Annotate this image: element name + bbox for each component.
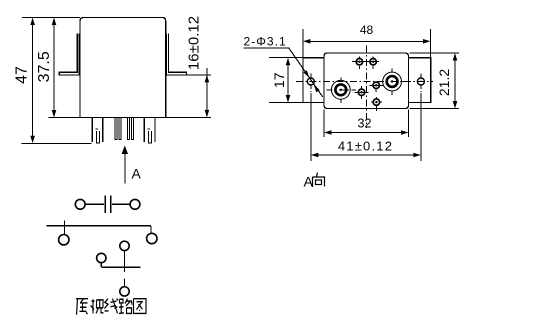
svg-text:A: A — [132, 166, 142, 182]
pin, left inner blade — [97, 131, 100, 143]
dimension 17 extension bottom — [269, 102, 303, 104]
char shi — [91, 299, 104, 313]
bottom view right tab — [409, 58, 431, 103]
dimension 48 extension right — [430, 29, 432, 58]
view arrow A stem — [124, 150, 126, 184]
arrow 17 top — [286, 58, 291, 65]
pin, left wide terminal — [92, 118, 103, 142]
big pin circle right inner — [387, 76, 398, 87]
circuit: lower arm segment — [124, 279, 126, 287]
extension line bottom (47) — [21, 142, 91, 144]
circuit: contact crossbar — [101, 266, 140, 268]
small pin center — [373, 82, 379, 88]
dimension 16 extension bottom — [166, 116, 211, 118]
big pin circle right outer — [383, 72, 402, 91]
dimension 37.5 line — [53, 24, 55, 112]
svg-text:47: 47 — [13, 66, 30, 84]
pin, middle 4 — [132, 118, 134, 140]
circuit: wire coil right — [112, 203, 130, 205]
char xian — [105, 299, 119, 314]
circuit: wire coil left — [85, 203, 104, 205]
arrow leader phi3.1 lower — [314, 85, 320, 93]
dimension 16 line — [206, 68, 208, 112]
arrow 16 top — [205, 75, 210, 83]
circuit: movable contact arm — [124, 251, 126, 273]
svg-text:37.5: 37.5 — [36, 51, 53, 82]
circuit: capacitor plates — [105, 195, 111, 213]
arrow 47 top — [30, 18, 35, 26]
leader line 2-phi3.1 — [243, 48, 322, 97]
dimension 21.2 extension bottom — [410, 108, 460, 110]
arrow 21.2 top — [453, 53, 458, 61]
arrow 37.5 bottom — [52, 110, 57, 118]
small pin top-right — [370, 59, 376, 65]
small pin mid-left — [358, 89, 364, 95]
arrow 37.5 top — [52, 18, 57, 26]
right mounting bracket (front view) — [167, 34, 187, 76]
pin, middle 1 — [115, 118, 117, 140]
svg-text:32: 32 — [358, 117, 372, 131]
small pin bottom — [373, 99, 379, 105]
arrow 32 right — [401, 130, 409, 135]
extension line bottom (37.5) — [49, 117, 80, 119]
arrow 41 right — [413, 153, 421, 158]
centerline horizontal — [296, 80, 433, 82]
small pin bottom ticks — [371, 97, 382, 111]
circuit: coil terminal left circle — [75, 199, 85, 209]
dimension 16 extension top — [187, 74, 212, 76]
pin, middle 2 — [119, 118, 121, 140]
char tu — [134, 299, 147, 314]
mounting hole right 3.1 — [417, 78, 424, 85]
small pin mid-left ticks — [355, 86, 369, 99]
centerline left hole vertical — [310, 74, 312, 93]
pin, middle 3 — [128, 118, 130, 140]
caption di-shi-xian-lu-tu (CJK) hand-drawn — [76, 299, 146, 315]
small pins top ticks — [352, 57, 379, 69]
pin, left blade notch dash — [96, 128, 99, 130]
dimension 41 extension left (hole center) — [310, 93, 312, 161]
relay body front view — [80, 18, 166, 118]
circuit: right contact circle — [147, 233, 157, 243]
circuit: common bus wire — [47, 225, 151, 227]
svg-text:2-Φ3.1: 2-Φ3.1 — [244, 35, 287, 49]
big pin circle left inner — [335, 84, 346, 95]
dimension 32 extension left — [323, 110, 325, 138]
pin, right blade notch dash — [148, 128, 151, 130]
centerline left big circle — [327, 89, 357, 91]
svg-text:41±0.12: 41±0.12 — [338, 139, 393, 154]
arrow 32 left — [324, 130, 332, 135]
char di — [76, 299, 88, 315]
arrow 17 bottom — [286, 95, 291, 103]
dimension 17 extension top — [269, 57, 303, 59]
circuit: coil terminal right circle — [130, 199, 140, 209]
arrow 47 bottom — [30, 136, 35, 144]
dimension 32 line — [331, 132, 402, 134]
circuit: bottom terminal circle — [120, 287, 129, 296]
mounting hole left 3.1 — [307, 78, 314, 85]
svg-text:48: 48 — [360, 23, 374, 37]
small pin top-left — [356, 59, 362, 65]
arrow 21.2 bottom — [453, 101, 458, 109]
bottom view body — [324, 53, 409, 109]
svg-text:16±0.12: 16±0.12 — [186, 16, 203, 70]
circuit: left pole stub — [100, 263, 102, 268]
circuit: left pole circle — [97, 253, 106, 262]
dimension 41 extension right (hole center) — [420, 93, 422, 161]
big pin circle left outer — [331, 80, 350, 99]
big pin right ticks — [392, 69, 405, 95]
extension line top — [22, 17, 80, 19]
circuit: movable contact top circle — [120, 241, 129, 250]
dimension 48 extension left — [302, 29, 304, 58]
bottom view left tab — [303, 58, 324, 103]
dimension 41 line — [318, 154, 414, 156]
dimension 17 line — [287, 64, 289, 96]
label xiang (CJK) hand-drawn — [313, 173, 325, 188]
svg-text:21.2: 21.2 — [436, 69, 452, 96]
circuit: left contact stub — [63, 220, 65, 234]
arrow 41 left — [311, 153, 319, 158]
centerline vertical — [365, 46, 367, 129]
arrow 16 bottom — [205, 110, 210, 118]
pin, right inner blade — [149, 131, 152, 143]
dimension 21.2 line — [454, 60, 456, 103]
dimension 47 line — [32, 24, 34, 137]
small pin center ticks — [370, 85, 384, 92]
dimension 32 extension right — [408, 110, 410, 138]
dimension 21.2 extension top — [410, 52, 460, 54]
dimension 48 line — [310, 40, 424, 42]
arrow 48 right — [423, 39, 431, 44]
arrow leader phi3.1 upper — [303, 70, 309, 78]
circuit: right drop wire — [150, 226, 152, 234]
pin, right wide terminal — [144, 118, 155, 142]
arrow A view — [122, 146, 128, 155]
centerline right hole vertical — [420, 74, 422, 93]
svg-text:17: 17 — [271, 72, 287, 88]
arrow 48 left — [303, 39, 311, 44]
big pin left ticks — [340, 78, 342, 104]
left mounting bracket (front view) — [59, 34, 79, 76]
circuit: left contact circle — [59, 235, 69, 245]
char lu — [119, 299, 132, 314]
